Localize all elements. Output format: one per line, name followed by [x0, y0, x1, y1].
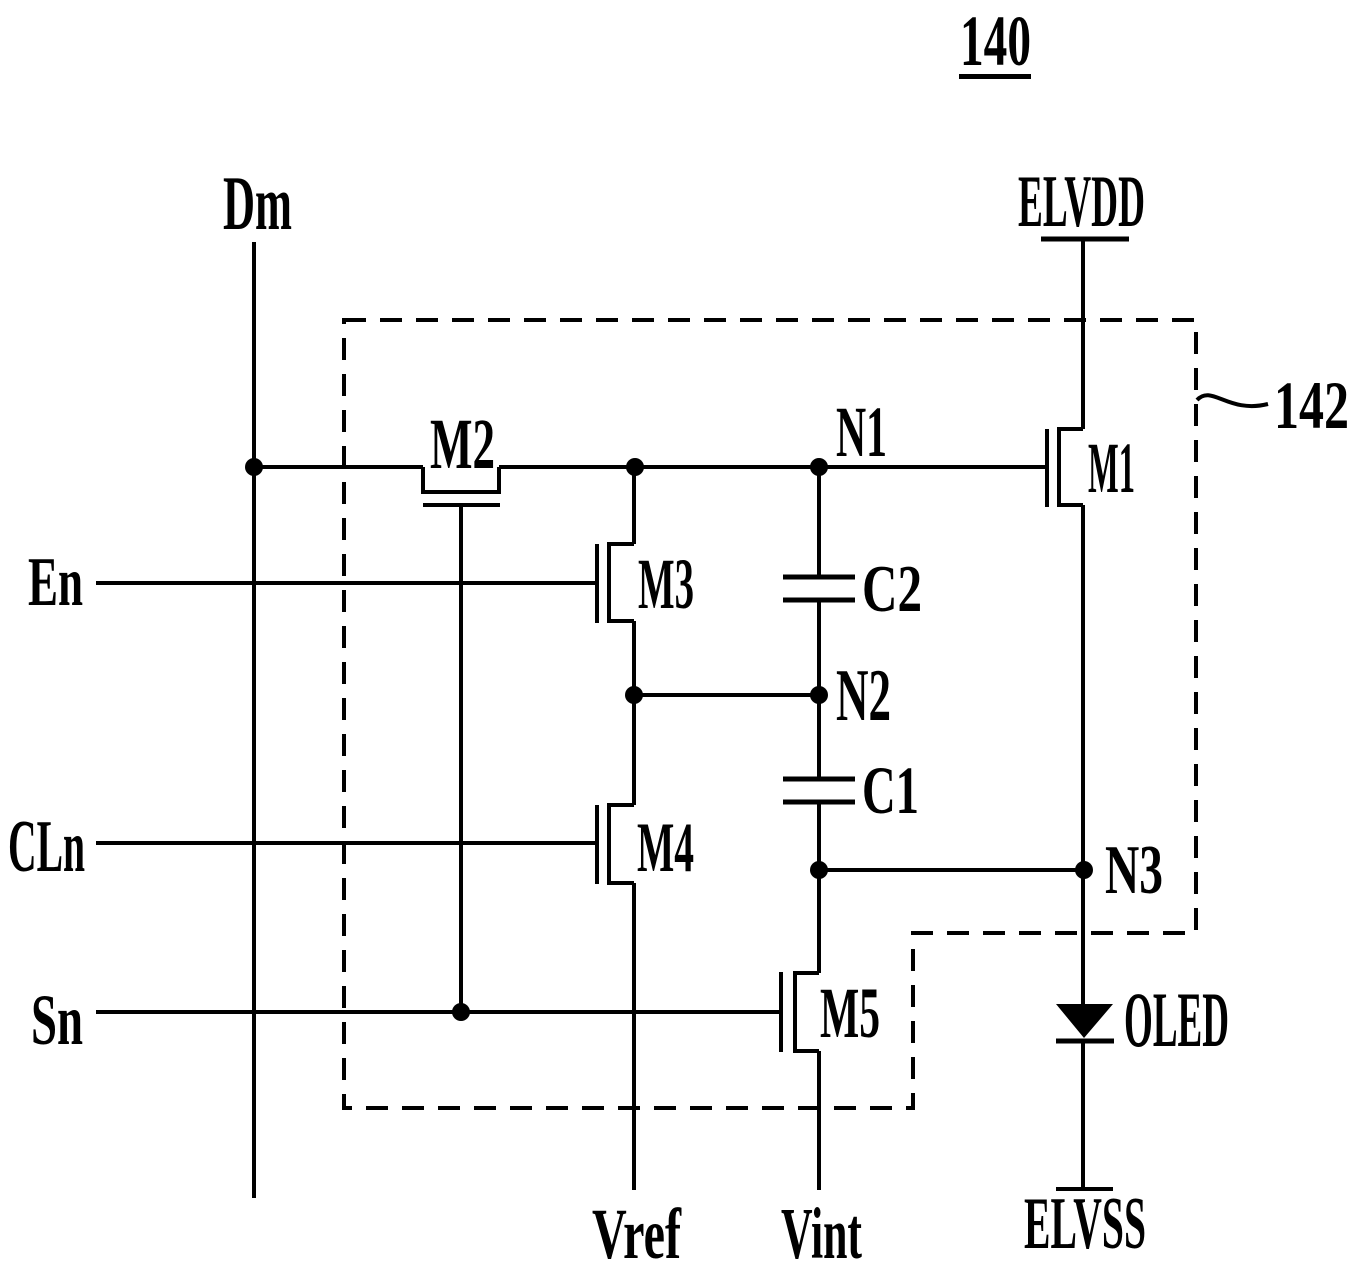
- wire M4 to Vref: [632, 883, 636, 1190]
- dashed box 142: [344, 320, 1196, 1108]
- wire N2 horizontal: [634, 693, 819, 697]
- svg-text:ELVSS: ELVSS: [1024, 1183, 1146, 1265]
- node N2 right dot: [810, 686, 828, 704]
- svg-text:M1: M1: [1088, 428, 1135, 508]
- svg-text:N3: N3: [1105, 832, 1163, 909]
- wire Sn line: [96, 1010, 781, 1014]
- svg-text:C2: C2: [862, 552, 922, 626]
- svg-text:M2: M2: [430, 404, 495, 484]
- node N2 left dot: [625, 686, 643, 704]
- power ELVDD: [1018, 161, 1145, 243]
- svg-text:C1: C1: [862, 752, 919, 828]
- node N3 right dot: [1075, 861, 1093, 879]
- node dot Dm row1: [245, 458, 263, 476]
- wire En line: [96, 581, 597, 585]
- wire CLn line: [96, 841, 597, 845]
- svg-text:Vref: Vref: [592, 1194, 682, 1272]
- wire ELVDD rail to M1 drain: [1081, 239, 1085, 429]
- svg-text:OLED: OLED: [1124, 976, 1229, 1063]
- node dot row1 branch: [626, 458, 644, 476]
- svg-text:ELVDD: ELVDD: [1018, 161, 1145, 243]
- svg-text:142: 142: [1274, 367, 1349, 443]
- transistor M5: [781, 972, 819, 1052]
- capacitor C1: [783, 695, 855, 870]
- wire M3 branch vertical: [632, 467, 636, 544]
- svg-text:N2: N2: [836, 655, 891, 737]
- label 140: [959, 1, 1031, 81]
- wire row1 Dm to M2: [254, 465, 423, 469]
- wire OLED to ELVSS: [1081, 1041, 1085, 1188]
- svg-text:M4: M4: [637, 809, 694, 887]
- wire M4 branch vertical: [632, 695, 636, 805]
- svg-text:140: 140: [960, 1, 1031, 81]
- node N1 dot: [810, 458, 828, 476]
- wire Dm data line vertical: [252, 242, 256, 1198]
- transistor M2: [423, 467, 500, 1012]
- transistor M4: [597, 805, 634, 884]
- svg-text:N1: N1: [836, 392, 887, 472]
- power ELVSS: [1024, 1183, 1146, 1265]
- transistor M1: [1047, 429, 1083, 507]
- svg-text:Sn: Sn: [31, 980, 83, 1060]
- node N3 left dot: [810, 861, 828, 879]
- svg-text:Vint: Vint: [781, 1193, 862, 1272]
- wire M1 to OLED: [1081, 505, 1085, 1005]
- OLED diode: [1056, 1004, 1114, 1041]
- wire N3 horizontal: [819, 868, 1084, 872]
- svg-text:En: En: [28, 544, 83, 621]
- wire M5 to Vint: [817, 1051, 821, 1190]
- svg-text:CLn: CLn: [8, 806, 85, 888]
- transistor M3: [597, 544, 634, 623]
- svg-text:M3: M3: [638, 544, 694, 624]
- svg-text:Dm: Dm: [223, 160, 292, 246]
- wire M3 to N2: [632, 621, 636, 695]
- svg-text:M5: M5: [820, 973, 880, 1053]
- wire row1 M2 to M1 gate: [499, 465, 1047, 469]
- wire N3 to M5: [817, 870, 821, 973]
- squiggle to 142: [1197, 395, 1268, 406]
- node dot Sn M2 gate: [452, 1003, 470, 1021]
- capacitor C2: [783, 467, 855, 695]
